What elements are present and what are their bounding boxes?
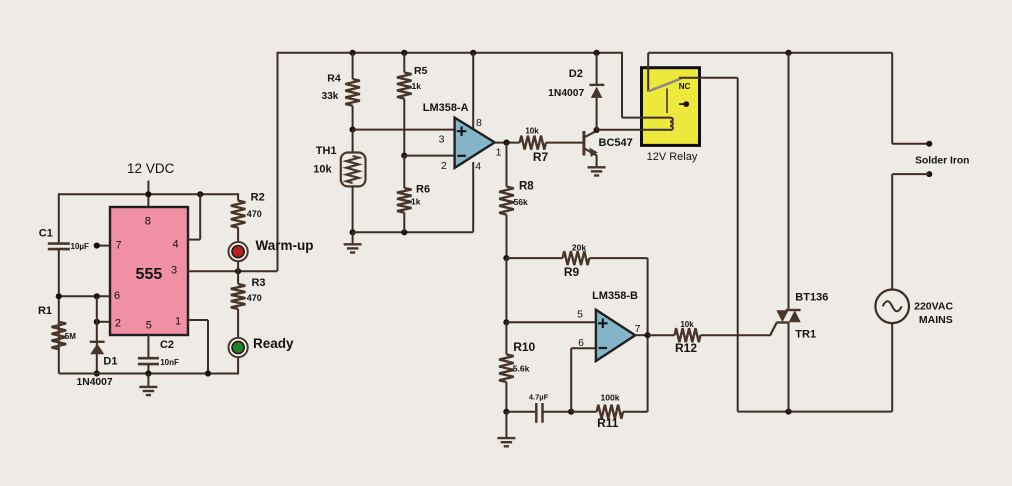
wire op-amp A output bbox=[495, 142, 520, 144]
op-amp U2A LM358-A bbox=[455, 118, 495, 168]
wire pin 1 down to bus bbox=[188, 319, 208, 321]
svg-text:10k: 10k bbox=[680, 320, 694, 329]
junction dot R9 branch bbox=[503, 255, 509, 261]
wire pin 6 bbox=[59, 295, 110, 297]
svg-text:10k: 10k bbox=[313, 163, 332, 175]
AC source 220VAC mains bbox=[875, 290, 909, 324]
svg-text:555: 555 bbox=[136, 266, 163, 283]
svg-text:2: 2 bbox=[441, 160, 447, 172]
junction dot pin8/bus bbox=[145, 191, 151, 197]
svg-text:1: 1 bbox=[175, 316, 181, 328]
svg-text:R7: R7 bbox=[533, 150, 549, 164]
svg-text:12 VDC: 12 VDC bbox=[127, 161, 175, 176]
op-amp U2B LM358-B bbox=[596, 310, 635, 361]
svg-text:Ready: Ready bbox=[253, 336, 294, 351]
triac TR1 BT136 bbox=[786, 309, 801, 311]
relay coil L1 bbox=[670, 118, 673, 130]
wire coil return to collector node bbox=[597, 129, 670, 131]
wire TH1 to analog bus bbox=[352, 186, 354, 232]
svg-text:12V Relay: 12V Relay bbox=[647, 151, 698, 163]
svg-text:1: 1 bbox=[496, 146, 502, 158]
resistor R10 bbox=[505, 322, 507, 354]
svg-text:R11: R11 bbox=[597, 416, 619, 430]
wire pin 8 LM358-A bbox=[472, 53, 474, 129]
svg-text:7: 7 bbox=[115, 239, 121, 251]
junction pin8/top bus bbox=[470, 50, 476, 56]
svg-text:1k: 1k bbox=[411, 197, 421, 207]
wire top mains bus bbox=[648, 52, 892, 54]
wire left vertical upper (bus to C1) bbox=[58, 193, 60, 243]
resistor R5 bbox=[403, 53, 405, 73]
svg-text:8: 8 bbox=[476, 117, 482, 129]
svg-text:5: 5 bbox=[577, 309, 583, 321]
svg-text:10µF: 10µF bbox=[71, 242, 90, 251]
svg-text:1N4007: 1N4007 bbox=[77, 377, 113, 388]
capacitor C2 bbox=[138, 357, 159, 360]
wire R8 branch vertical bbox=[506, 143, 508, 187]
svg-text:Solder Iron: Solder Iron bbox=[915, 155, 969, 166]
wire LED1 to junction bbox=[237, 261, 239, 271]
resistor R3 bbox=[237, 271, 239, 284]
svg-text:56k: 56k bbox=[514, 197, 528, 207]
wire pin 6 branch bbox=[570, 348, 572, 412]
svg-text:D1: D1 bbox=[103, 356, 117, 368]
diode D2 bbox=[596, 53, 598, 85]
resistor R4 bbox=[352, 53, 354, 79]
svg-text:MAINS: MAINS bbox=[919, 314, 953, 326]
svg-text:R9: R9 bbox=[564, 265, 580, 279]
junction dot pin4 branch/bus bbox=[197, 191, 203, 197]
svg-text:C2: C2 bbox=[160, 339, 174, 351]
svg-text:C1: C1 bbox=[39, 228, 53, 240]
thermistor TH1 bbox=[352, 130, 354, 153]
svg-text:LM358-B: LM358-B bbox=[592, 290, 638, 302]
svg-text:R2: R2 bbox=[251, 192, 265, 204]
junction dot collector node bbox=[594, 127, 600, 133]
svg-text:R8: R8 bbox=[519, 180, 534, 192]
wire triac branch from top bus bbox=[788, 53, 790, 310]
diode D1 bbox=[90, 341, 105, 343]
svg-text:R6: R6 bbox=[416, 184, 430, 196]
svg-text:10nF: 10nF bbox=[160, 358, 179, 367]
resistor R1 bbox=[52, 322, 67, 349]
svg-text:5M: 5M bbox=[65, 332, 76, 341]
LED Warm-up (red) bbox=[229, 242, 248, 261]
junction dot bottom left B bbox=[503, 409, 509, 415]
wire pin 5 to C2 bbox=[147, 335, 149, 358]
wire -input LM358-A bbox=[404, 155, 454, 157]
svg-text:BC547: BC547 bbox=[599, 137, 633, 149]
wire op-amp B output bbox=[635, 334, 647, 336]
wire coil feed from 12V bus bbox=[621, 52, 623, 118]
wire relay contact riser down bbox=[737, 78, 739, 412]
terminal dot solder iron top bbox=[926, 141, 932, 147]
resistor R6 bbox=[403, 156, 405, 188]
svg-text:1N4007: 1N4007 bbox=[548, 88, 584, 99]
svg-text:470: 470 bbox=[247, 209, 262, 219]
junction R5/top bus bbox=[401, 50, 407, 56]
svg-text:R4: R4 bbox=[327, 73, 341, 85]
LED Ready (green) bbox=[229, 338, 248, 357]
svg-text:8: 8 bbox=[145, 216, 151, 228]
svg-text:220VAC: 220VAC bbox=[914, 300, 953, 312]
relay NC contact bbox=[679, 103, 683, 105]
wire analog bus bbox=[353, 231, 474, 233]
svg-text:NC: NC bbox=[679, 82, 691, 91]
wire vertical to +input B bbox=[505, 258, 507, 322]
svg-text:4.7µF: 4.7µF bbox=[529, 393, 549, 402]
svg-text:TH1: TH1 bbox=[316, 145, 337, 157]
wire +input LM358-B bbox=[506, 321, 596, 323]
svg-text:R1: R1 bbox=[38, 305, 52, 317]
wire R2 branch from bus corner bbox=[237, 193, 239, 200]
wire R3 to LED2 bbox=[237, 309, 239, 338]
svg-text:470: 470 bbox=[247, 293, 262, 303]
wire 12VDC stub to pin 8 bbox=[147, 181, 149, 208]
wire bottom-left ground bus bbox=[59, 373, 238, 375]
wire triac gate bbox=[770, 323, 776, 335]
wire emitter to ground bbox=[596, 155, 598, 167]
junction dot D1/bottom bus bbox=[94, 370, 100, 376]
wire +input LM358-A bbox=[353, 129, 455, 131]
wire solder iron return to mains source bbox=[892, 173, 929, 175]
svg-text:R3: R3 bbox=[251, 277, 265, 289]
wire pin 7 stub bbox=[97, 245, 110, 247]
capacitor C3 4.7uF bbox=[506, 411, 536, 413]
junction D2/top bus bbox=[594, 50, 600, 56]
wire R2 to LED1 bbox=[237, 228, 239, 243]
wire comparator riser (pin3 net up) bbox=[277, 53, 279, 271]
svg-text:LM358-A: LM358-A bbox=[423, 102, 469, 114]
wire top 12V bus (left part) bbox=[277, 52, 623, 54]
wire R9 feedback top bbox=[506, 257, 562, 259]
junction dot pin6 branch bbox=[568, 409, 574, 415]
svg-text:2: 2 bbox=[115, 318, 121, 330]
svg-text:6: 6 bbox=[114, 290, 120, 302]
svg-text:3: 3 bbox=[171, 265, 177, 277]
svg-text:3: 3 bbox=[439, 134, 445, 146]
svg-text:R10: R10 bbox=[513, 340, 535, 354]
ground below C2 bbox=[147, 374, 149, 387]
resistor R7 bbox=[520, 136, 546, 150]
transistor Q1 BC547 bbox=[582, 131, 585, 156]
wire R5 to -input node bbox=[403, 99, 405, 156]
ground below TH1 bbox=[352, 232, 354, 244]
svg-text:33k: 33k bbox=[322, 91, 339, 102]
svg-text:4: 4 bbox=[475, 160, 481, 172]
ground below R10 bbox=[505, 412, 507, 438]
wire pin 3 net to LEDs and comparator riser bbox=[188, 270, 278, 272]
svg-text:10k: 10k bbox=[525, 127, 539, 136]
svg-text:TR1: TR1 bbox=[795, 329, 816, 341]
relay switch arm bbox=[648, 79, 681, 92]
wire relay contact out bbox=[679, 77, 738, 79]
svg-text:7: 7 bbox=[635, 323, 641, 335]
junction dot C2/ground bbox=[145, 370, 151, 376]
junction R4/top bus bbox=[350, 50, 356, 56]
wire LED2 to bottom bus bbox=[237, 357, 239, 374]
svg-text:R12: R12 bbox=[675, 341, 697, 355]
resistor R12 bbox=[648, 334, 675, 336]
svg-text:5: 5 bbox=[146, 320, 152, 332]
relay pole line bbox=[666, 88, 668, 113]
wire left vertical lower (C1 to bottom bus) bbox=[58, 249, 60, 373]
wire mains source to bottom bus bbox=[891, 323, 893, 412]
svg-text:1k: 1k bbox=[412, 81, 422, 91]
resistor R2 bbox=[231, 201, 246, 228]
555 timer U1 box bbox=[110, 207, 188, 335]
svg-text:20k: 20k bbox=[572, 242, 586, 252]
terminal dot solder iron bottom bbox=[926, 171, 932, 177]
resistor R8 bbox=[499, 187, 514, 215]
relay K1 box bbox=[642, 68, 700, 146]
wire R4 to +input node bbox=[352, 106, 354, 130]
svg-text:6: 6 bbox=[578, 337, 584, 349]
wire top-left 12V bus bbox=[59, 193, 238, 195]
capacitor C1 bbox=[48, 242, 70, 245]
svg-text:100k: 100k bbox=[601, 393, 620, 403]
svg-text:Warm-up: Warm-up bbox=[256, 238, 314, 253]
wire bottom mains bus bbox=[738, 411, 893, 413]
resistor R11 bbox=[571, 411, 597, 413]
svg-text:4: 4 bbox=[172, 238, 178, 250]
wire pin 4 LM358-A bbox=[472, 162, 474, 232]
svg-text:5.6k: 5.6k bbox=[513, 363, 530, 373]
wire pin 4 riser bbox=[188, 239, 200, 241]
wire pin 2 stub bbox=[97, 321, 110, 323]
svg-text:BT136: BT136 bbox=[795, 292, 828, 304]
svg-text:D2: D2 bbox=[569, 68, 583, 80]
svg-text:R5: R5 bbox=[414, 65, 428, 77]
resistor R9 bbox=[563, 251, 590, 265]
wire R7 to base bbox=[546, 142, 583, 144]
wire D1 branch vertical bbox=[96, 296, 98, 373]
wire relay common feed from mains bus bbox=[647, 53, 649, 92]
wire triac to bottom bus bbox=[788, 323, 790, 412]
wire solder iron feed bbox=[891, 53, 893, 144]
wire C2 to bus bbox=[147, 364, 149, 373]
